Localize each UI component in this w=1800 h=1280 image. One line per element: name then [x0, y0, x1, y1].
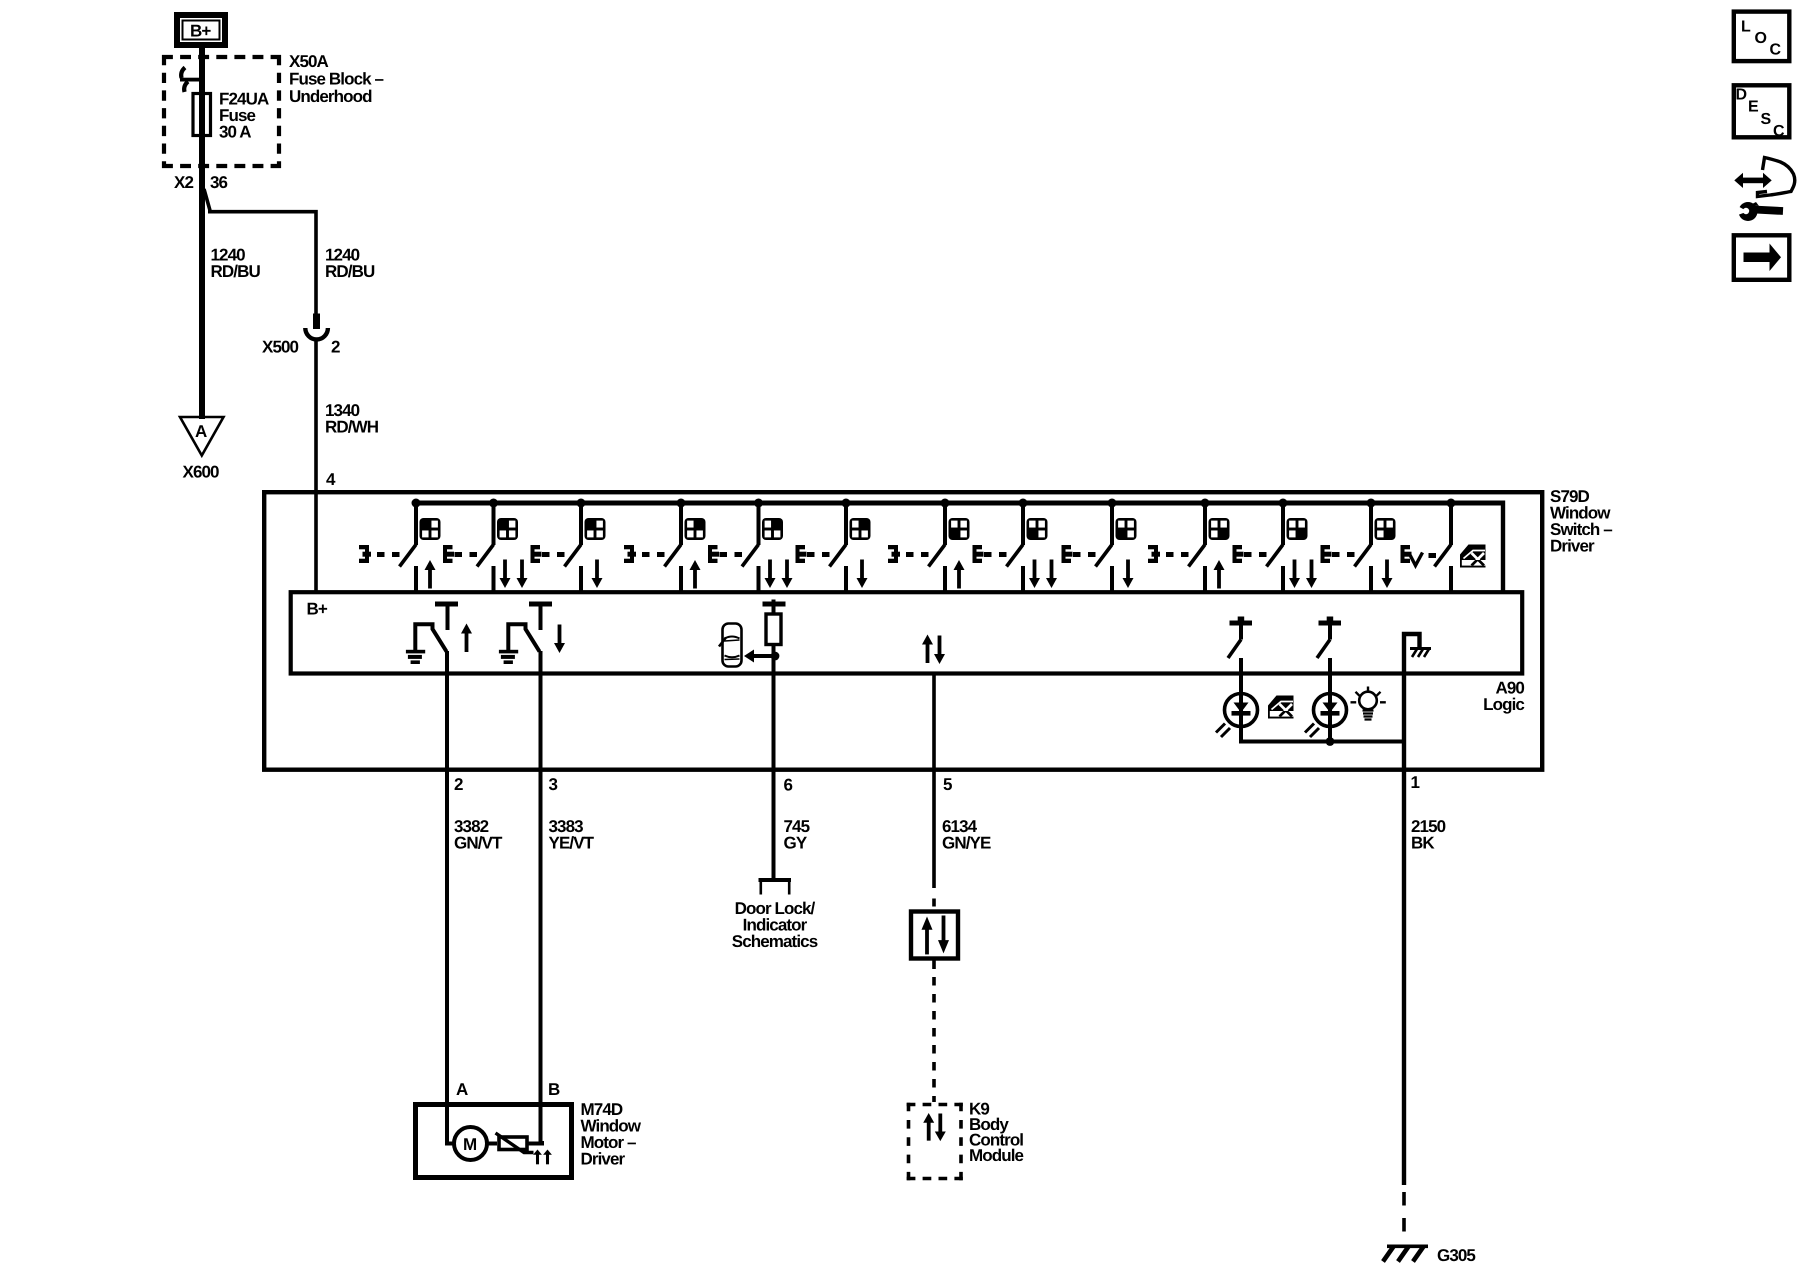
motor box M74D — [416, 1105, 572, 1178]
wire branch from X2-36 junction to X500 — [204, 189, 316, 314]
label pin 2 — [454, 775, 463, 794]
svg-text:RD/BU: RD/BU — [325, 262, 375, 281]
svg-text:B+: B+ — [190, 22, 211, 41]
label S79D Window Switch - Driver — [1550, 487, 1612, 556]
wire pin 6 output 745 GY — [772, 644, 776, 879]
svg-text:GN/YE: GN/YE — [942, 834, 991, 853]
svg-text:C: C — [1770, 42, 1782, 59]
svg-text:D: D — [1736, 87, 1748, 104]
svg-text:YE/VT: YE/VT — [549, 834, 595, 853]
svg-text:M: M — [463, 1135, 477, 1154]
bulb icon — [1351, 687, 1386, 720]
wire battery feed vertical — [199, 45, 205, 419]
bus wire B+ rail — [414, 501, 1506, 506]
resistor (door lock feed) — [763, 600, 786, 645]
switch SW2 LF window express down — [443, 499, 528, 592]
label X50A Fuse Block - Underhood — [289, 52, 384, 106]
svg-text:A: A — [195, 422, 207, 441]
svg-text:BK: BK — [1411, 834, 1435, 853]
label pin 1 — [1411, 773, 1420, 792]
wire pin 1 ground 2150 BK — [1402, 673, 1406, 1185]
svg-text:L: L — [1741, 19, 1751, 36]
svg-text:2: 2 — [331, 338, 340, 357]
LED illumination indicator — [1305, 673, 1347, 742]
wire 1340 RD/WH X500 to S79D pin 4 — [314, 341, 318, 594]
label 2150 BK — [1411, 817, 1446, 853]
label 1240 RD/BU (left) — [211, 246, 261, 282]
svg-text:Logic: Logic — [1483, 695, 1524, 714]
switch SW3 LF window down — [531, 499, 606, 592]
wire pin 3 output 3383 YE/VT — [539, 651, 543, 1144]
wire LED return bus — [1239, 737, 1406, 746]
svg-text:S: S — [1761, 111, 1772, 128]
switch SW8 LR window express down — [973, 499, 1058, 592]
svg-text:B: B — [548, 1080, 560, 1099]
svg-text:Underhood: Underhood — [289, 87, 372, 106]
label pin 4 — [326, 470, 336, 489]
svg-text:E: E — [1748, 99, 1759, 116]
label 1240 RD/BU (right) — [325, 246, 375, 282]
label X600 — [183, 463, 220, 482]
arrows up/down (BCM signal) — [922, 635, 945, 665]
arrow up (logic) — [461, 624, 472, 653]
arrow left to car — [744, 650, 779, 663]
svg-text:Driver: Driver — [581, 1150, 626, 1169]
chassis ground symbol (logic) — [1410, 647, 1431, 657]
logic block A90 — [291, 592, 1523, 673]
svg-text:X600: X600 — [183, 463, 220, 482]
svg-text:G305: G305 — [1437, 1246, 1475, 1265]
label M74D Window Motor - Driver — [581, 1100, 642, 1169]
nav icon next arrow — [1734, 235, 1790, 279]
label A90 Logic — [1483, 679, 1524, 715]
nav icon DESC — [1734, 85, 1790, 140]
switch SW13 window lockout — [1401, 499, 1486, 592]
module K9 Body Control Module dashed box — [907, 1103, 963, 1181]
svg-text:RD/BU: RD/BU — [211, 262, 261, 281]
label pin 5 — [943, 775, 952, 794]
svg-text:3: 3 — [549, 775, 558, 794]
label terminal B — [548, 1080, 560, 1099]
svg-text:4: 4 — [326, 470, 336, 489]
svg-text:A: A — [456, 1080, 468, 1099]
arrow down (logic) — [554, 625, 565, 654]
thermistor (motor protection) — [487, 1133, 542, 1153]
svg-text:6: 6 — [784, 776, 793, 795]
svg-text:X50A: X50A — [289, 52, 329, 71]
fuse F24UA element — [193, 94, 211, 136]
connector X500 inline — [305, 314, 328, 340]
ground reference triangle A (X600) — [180, 417, 224, 456]
momentary switch (lockout LED) — [1228, 617, 1252, 674]
switch SW9 LR window down — [1062, 499, 1137, 592]
ground symbol (up driver) — [406, 650, 425, 664]
arrows up up (motor) — [533, 1150, 552, 1165]
label X500 — [262, 338, 299, 357]
svg-text:Module: Module — [969, 1146, 1024, 1165]
nav icon LOC — [1734, 12, 1790, 62]
label connector X2 — [174, 173, 193, 192]
switch SW5 RF window express down — [708, 499, 793, 592]
svg-text:X2: X2 — [174, 173, 193, 192]
label 6134 GN/YE — [942, 817, 991, 853]
svg-text:Fuse Block –: Fuse Block – — [289, 70, 384, 89]
off-page tab (door lock schematics) — [759, 878, 792, 895]
svg-text:B+: B+ — [307, 600, 328, 619]
label G305 — [1437, 1246, 1475, 1265]
logic switch window-up output driver — [415, 602, 458, 652]
switch SW11 RR window express down — [1233, 499, 1318, 592]
arrows up/down (BCM) — [923, 1113, 946, 1141]
label 745 GY — [784, 817, 810, 853]
label pin 36 — [210, 173, 228, 192]
logic switch window-down output driver — [508, 602, 552, 652]
momentary switch (illumination) — [1317, 617, 1341, 674]
label 1340 RD/WH — [325, 401, 379, 437]
svg-text:GN/VT: GN/VT — [454, 834, 503, 853]
window lockout mini icon — [1268, 696, 1294, 719]
battery B+ terminal box — [177, 15, 225, 45]
label terminal A — [456, 1080, 468, 1099]
switch SW12 RR window down — [1321, 499, 1396, 592]
nav icon wrench — [1735, 202, 1783, 221]
label K9 Body Control Module — [969, 1100, 1024, 1166]
label 3382 GN/VT — [454, 817, 503, 853]
svg-text:X500: X500 — [262, 338, 299, 357]
svg-text:GY: GY — [784, 834, 808, 853]
svg-text:36: 36 — [210, 173, 228, 192]
nav icon car location arrow — [1734, 158, 1794, 197]
svg-text:Driver: Driver — [1550, 537, 1595, 556]
label B+ (logic) — [307, 600, 328, 619]
switch SW10 RR window up — [1148, 499, 1230, 592]
svg-text:1: 1 — [1411, 773, 1420, 792]
fuse block terminal hook — [180, 68, 205, 93]
svg-text:RD/WH: RD/WH — [325, 418, 379, 437]
motor M — [447, 1127, 487, 1160]
up/down signal box — [911, 912, 958, 959]
svg-text:5: 5 — [943, 775, 952, 794]
wire dashed to BCM — [932, 960, 936, 1102]
switch SW4 RF window up — [624, 499, 706, 592]
svg-text:Schematics: Schematics — [732, 932, 818, 951]
ground symbol (down driver) — [499, 650, 518, 664]
svg-text:O: O — [1755, 30, 1767, 47]
switch SW1 LF window up — [359, 499, 441, 592]
LED lockout indicator — [1216, 673, 1258, 742]
svg-text:30 A: 30 A — [219, 123, 251, 142]
wire dashed to G305 — [1402, 1192, 1406, 1242]
label pin 2 (X500) — [331, 338, 340, 357]
wire pin 2 output 3382 GN/VT — [445, 651, 449, 1144]
wire pin 5 6134 GN/YE — [932, 673, 936, 907]
label 3383 YE/VT — [549, 817, 595, 853]
label Door Lock/Indicator Schematics — [732, 899, 818, 951]
ground G305 chassis symbol — [1383, 1245, 1428, 1262]
car icon (door lock indicator) — [719, 624, 742, 667]
switch SW7 LR window up — [888, 499, 970, 592]
label F24UA Fuse 30 A — [219, 90, 269, 142]
label pin 6 — [784, 776, 793, 795]
switch SW6 RF window down — [796, 499, 871, 592]
component box S79D Window Switch Driver — [264, 492, 1542, 770]
svg-text:C: C — [1773, 123, 1785, 140]
label pin 3 — [549, 775, 558, 794]
fuse block X50A dashed box — [162, 55, 281, 168]
wire lockout return to logic — [1501, 501, 1505, 593]
svg-text:2: 2 — [454, 775, 463, 794]
ground elbow (logic internal) — [1404, 634, 1420, 673]
